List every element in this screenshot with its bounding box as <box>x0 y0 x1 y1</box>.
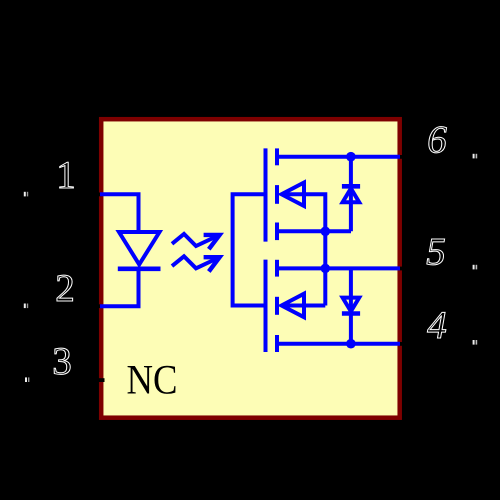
pin 1 stub <box>95 193 101 197</box>
wire Q1 source <box>277 229 351 233</box>
diode D3 cathode bar <box>342 311 360 316</box>
wire LED cathode to pin2 <box>100 269 139 306</box>
svg-text:6: 6 <box>427 119 447 162</box>
wire Q2 source to pin 4 <box>277 342 400 346</box>
diode D2 wire <box>349 157 353 232</box>
LED D1 anode triangle <box>119 232 160 265</box>
svg-text:4: 4 <box>427 304 447 347</box>
transistor Q2 channel drain segment <box>275 260 279 277</box>
svg-text:1: 1 <box>56 154 76 197</box>
wire Q2 drain to pin 5 <box>277 266 400 270</box>
transistor Q2 channel source segment <box>275 335 279 352</box>
junction pin4 / D3 <box>346 339 356 349</box>
wire pin1 to LED anode <box>100 194 139 232</box>
component body box <box>101 119 400 418</box>
LED D1 cathode bar <box>118 266 161 271</box>
gate rail wire <box>233 194 266 305</box>
transistor Q1 channel body segment <box>275 185 279 204</box>
wire Q1 drain to pin 6 <box>277 155 400 159</box>
svg-text:3: 3 <box>52 340 72 383</box>
pin 5 stub <box>399 267 407 271</box>
transistor Q2 body arrow <box>282 294 305 318</box>
pin 2 stub <box>95 304 101 308</box>
junction pin5 wire <box>321 264 331 274</box>
photon arrow 1 shaft <box>172 234 219 246</box>
svg-text:2: 2 <box>55 267 75 310</box>
pin 1 end marker <box>24 192 28 197</box>
diode D2 triangle <box>343 188 360 202</box>
pin 4 end marker <box>473 340 478 345</box>
photon arrow 2 shaft <box>172 256 219 268</box>
diode D3 triangle <box>343 298 360 312</box>
transistor Q2 channel body segment <box>275 297 279 315</box>
photon arrow 1 head <box>204 235 220 249</box>
transistor Q2 gate bar <box>264 260 268 352</box>
pin 4 stub <box>399 342 407 346</box>
transistor Q1 gate bar <box>264 148 268 241</box>
transistor Q1 body arrow <box>282 183 305 207</box>
pin 6 stub <box>399 155 407 159</box>
diode D2 cathode bar <box>342 184 360 189</box>
wire Q2 body tie <box>282 304 325 308</box>
photon arrow 2 head <box>204 257 220 271</box>
pin 3 stub <box>95 378 105 382</box>
junction pin6 / D2 <box>346 152 356 162</box>
pin 5 end marker <box>473 265 478 270</box>
svg-text:NC: NC <box>127 358 178 404</box>
pin 6 end marker <box>473 154 478 159</box>
pin 3 end marker <box>25 377 29 382</box>
pin 2 end marker <box>24 304 28 309</box>
diode D3 wire <box>349 268 353 343</box>
wire Q1 body tie <box>282 194 325 305</box>
transistor Q1 channel source segment <box>275 223 279 241</box>
svg-text:5: 5 <box>426 231 446 274</box>
transistor Q1 channel drain segment <box>275 148 279 165</box>
junction Q1 source / body <box>321 227 331 237</box>
